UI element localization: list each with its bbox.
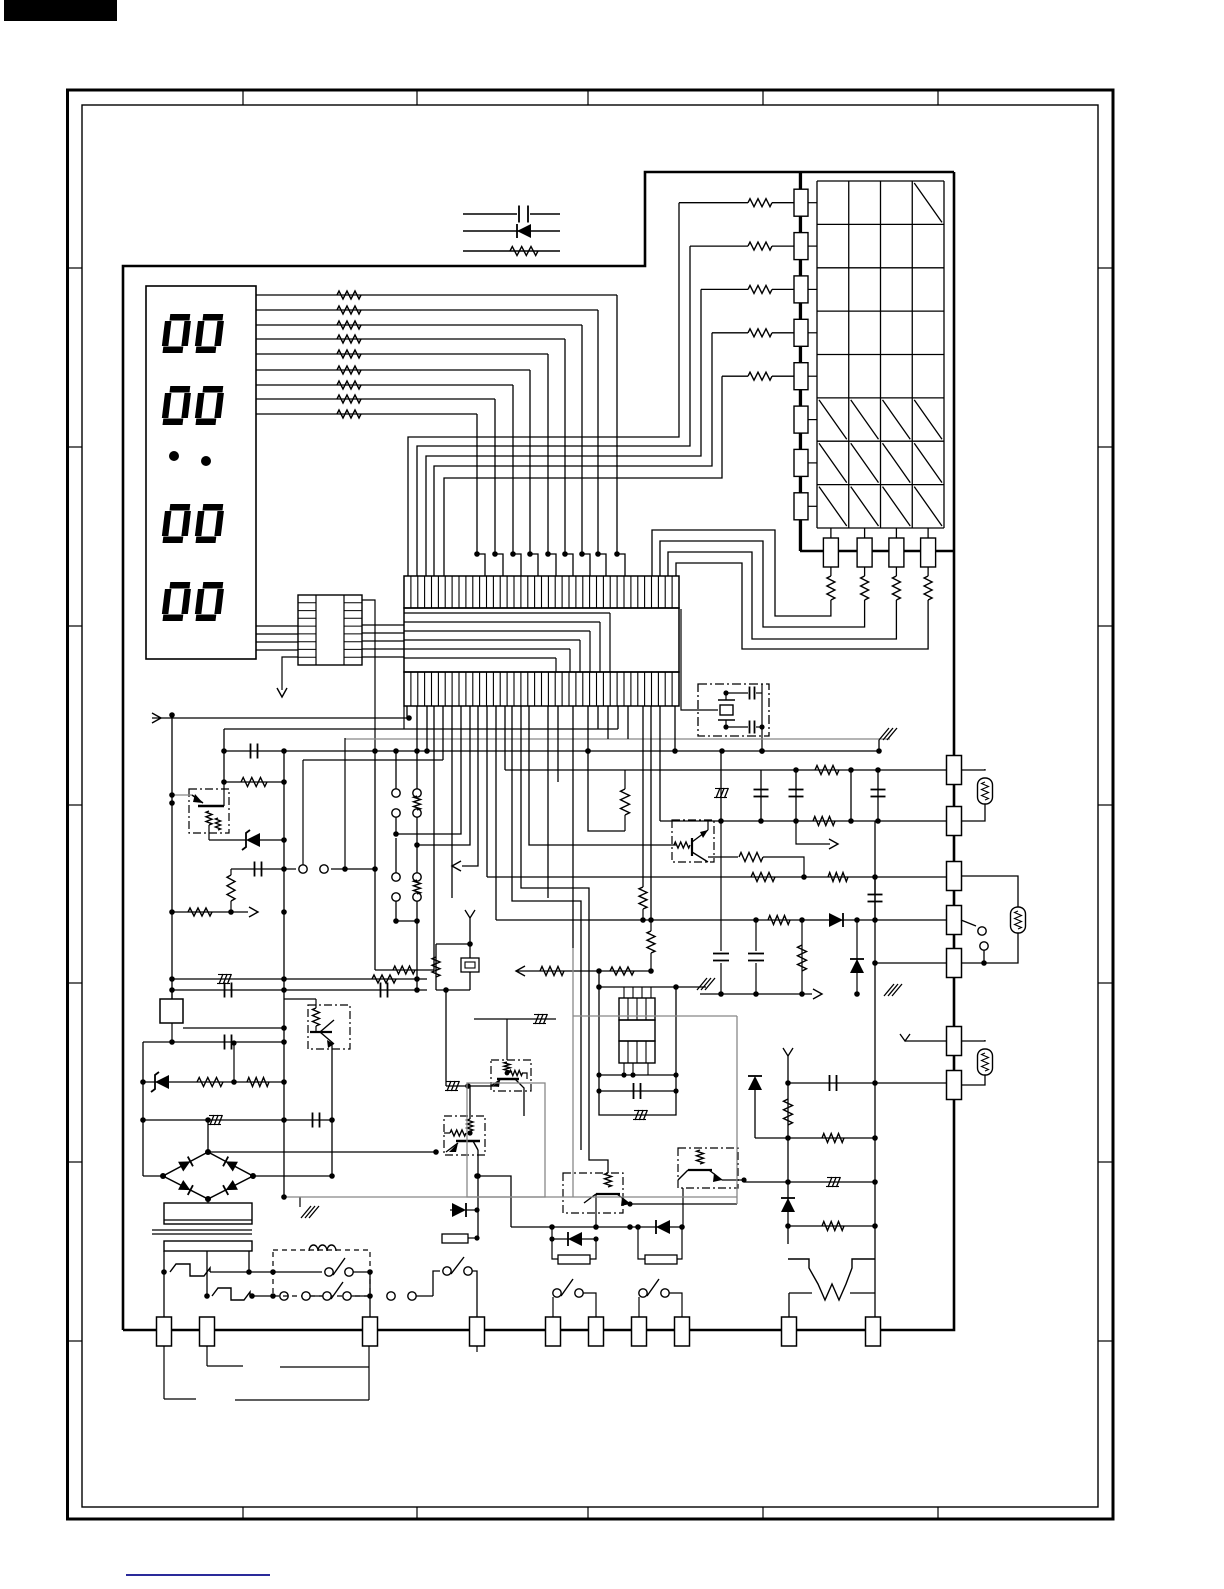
bus y994	[700, 993, 812, 995]
display digit pair 4	[163, 585, 190, 618]
keypad row resistor 4	[712, 332, 748, 334]
crystal X1	[720, 705, 733, 715]
res vertical x231	[227, 875, 235, 901]
zener up x788	[781, 1198, 795, 1212]
below-line wires	[163, 1346, 165, 1399]
module B resistor box	[638, 1227, 645, 1259]
7-segment display module	[146, 286, 256, 659]
display digit pair 2	[163, 389, 190, 422]
wire segment line 3	[256, 324, 582, 326]
circuit board boundary	[123, 172, 954, 1330]
module A resistor box	[552, 1239, 558, 1259]
rail x284	[283, 751, 285, 1197]
border tick marks	[242, 90, 244, 105]
breaker switch row2	[204, 1293, 210, 1299]
transistor Q2	[308, 1005, 350, 1049]
module A switch	[552, 1296, 554, 1317]
connector CN-553	[546, 1317, 561, 1346]
res x802 down	[801, 920, 803, 994]
transistor Q3	[563, 1173, 623, 1213]
keypad column resistor 3	[895, 567, 897, 576]
main supply bus	[224, 750, 879, 752]
keypad column wire 3	[668, 552, 896, 639]
wires latch to IC	[362, 624, 404, 626]
right edge connector boxes	[947, 756, 962, 785]
wires display to latch	[256, 625, 298, 627]
row y877	[487, 876, 954, 878]
interlock switch1	[273, 1271, 322, 1273]
res on HV left	[784, 1099, 793, 1125]
resonator loop	[436, 943, 470, 945]
keypad connector K5	[794, 363, 808, 390]
IC bottom pin row	[404, 672, 679, 706]
IC internal bus lines	[404, 612, 610, 614]
diode x857	[856, 920, 858, 994]
connector CN-164	[157, 1317, 172, 1346]
Y antenna	[465, 910, 475, 918]
bus wire A	[224, 728, 618, 730]
buzzer cap	[599, 1090, 676, 1092]
junction	[510, 551, 516, 557]
left rail	[171, 715, 173, 999]
junction	[562, 551, 568, 557]
heater box	[789, 1292, 812, 1294]
crystal oscillator box	[698, 684, 769, 736]
keypad row wire 4	[434, 333, 712, 576]
hatch feed wire y1019	[474, 1018, 556, 1020]
row y821	[660, 820, 946, 822]
keypad row resistor 2	[690, 245, 748, 247]
row y979 hatch	[172, 978, 427, 980]
crystal wires	[681, 609, 718, 710]
legend capacitor	[463, 213, 517, 215]
dashed interlock box	[273, 1250, 370, 1296]
legend diode	[463, 230, 560, 232]
IC bottom wires	[406, 706, 408, 718]
switch chain right	[387, 1292, 395, 1300]
main microcontroller IC body	[404, 608, 679, 672]
stub x224	[223, 729, 225, 782]
arrow wire y866	[452, 861, 461, 871]
interlock switch2	[302, 1292, 310, 1300]
connector CN-682	[675, 1317, 690, 1346]
keypad column wire 2	[660, 541, 865, 627]
relay coil	[160, 999, 183, 1023]
corner black label block	[4, 0, 117, 21]
row y771	[505, 769, 946, 771]
keypad column resistor 1	[830, 567, 832, 576]
caps down from y920	[720, 821, 722, 994]
module A diode	[551, 1227, 553, 1239]
hatch + cap y1120	[143, 1119, 332, 1121]
keypad connector K4	[794, 319, 808, 346]
lamp L1	[961, 769, 985, 770]
bridge rectifier	[163, 1152, 253, 1199]
keypad connector K8	[794, 493, 808, 520]
keypad connector K1	[794, 189, 808, 216]
zener + resistors y1082	[143, 1081, 284, 1083]
loop x625	[588, 751, 625, 831]
wire segment line 6	[256, 369, 530, 371]
entry arrow left	[152, 713, 161, 723]
link cap-zener rows	[233, 1043, 235, 1082]
connector CN-596	[589, 1317, 604, 1346]
wire y963 to rail	[875, 962, 946, 964]
keypad column connector C3	[895, 528, 897, 538]
junction	[579, 551, 585, 557]
junction	[474, 551, 480, 557]
junction	[527, 551, 533, 557]
keypad column connector C2	[864, 528, 866, 538]
ground right	[856, 990, 858, 994]
Y into CN1041	[900, 1034, 910, 1041]
keypad row wire 3	[426, 289, 701, 576]
ground below gray line	[299, 1197, 301, 1207]
buzzer ground	[676, 986, 706, 988]
wire segment line 5	[256, 353, 548, 355]
keypad column resistor 4	[927, 567, 929, 576]
row y912 with arrow	[172, 911, 231, 913]
connector CN-477	[470, 1317, 485, 1346]
keypad common chain line	[800, 172, 802, 551]
display colon dots	[169, 451, 179, 461]
transistor Q7	[672, 820, 714, 862]
buzzer resistor row	[516, 966, 525, 976]
display digit pair 3	[163, 507, 190, 540]
HV row y1138	[755, 1137, 875, 1139]
ground y993 right	[875, 996, 884, 998]
keypad row resistor 1	[679, 202, 748, 204]
keypad row wire 5	[444, 376, 722, 576]
IC top pin row	[404, 576, 679, 608]
wire segment line 7	[256, 384, 513, 386]
connector CN-370	[363, 1317, 378, 1346]
lamp L2	[961, 876, 1018, 907]
latch/driver IC	[298, 595, 362, 665]
legend resistor	[463, 250, 560, 252]
keypad connector K3	[794, 276, 808, 303]
row y990 caps	[172, 989, 427, 991]
keypad row resistor 3	[701, 288, 748, 290]
latch wire to bus	[362, 600, 375, 751]
connector CN-789	[782, 1317, 797, 1346]
display digit pair 1	[163, 317, 190, 350]
cap y1083	[788, 1082, 948, 1084]
row y920	[496, 919, 946, 921]
junction	[545, 551, 551, 557]
connector CN-207	[200, 1317, 215, 1346]
bus wire B (gray)	[345, 738, 890, 740]
zener D1	[209, 839, 246, 841]
drawing border outer	[68, 90, 1114, 1519]
IC edge stub	[403, 706, 405, 729]
drawing border inner	[82, 105, 1098, 1507]
caps between 770/821	[760, 770, 762, 821]
vertical x345	[344, 738, 346, 869]
cap y1042	[143, 1041, 284, 1043]
Q7 emitter resistor	[708, 857, 740, 862]
connector CN-639	[632, 1317, 647, 1346]
crystal caps	[726, 692, 748, 694]
cap x875	[868, 894, 883, 896]
lamp L3	[961, 1040, 985, 1041]
inductor coil	[309, 1245, 336, 1251]
buzzer loop	[599, 971, 676, 1115]
key matrix grid	[816, 181, 818, 528]
hatch x721	[720, 751, 722, 821]
relay contact box (gray)	[467, 1083, 545, 1197]
Y top	[783, 1048, 793, 1056]
RC row y782	[224, 781, 284, 783]
connector CN-873	[866, 1317, 881, 1346]
keypad connector K2	[794, 233, 808, 260]
blue footer underline	[126, 1574, 270, 1576]
junction	[492, 551, 498, 557]
wire segment line 1	[256, 294, 617, 296]
wire segment line 8	[256, 398, 495, 400]
switch at L2	[961, 920, 976, 926]
keypad connector K6	[794, 406, 808, 433]
HV row y1226	[788, 1225, 875, 1227]
buzzer component	[619, 998, 655, 1020]
buzzer hatch	[635, 1110, 639, 1120]
left relay contact group	[477, 1176, 479, 1238]
keypad column connector C1	[830, 528, 832, 538]
vertical resistor x651	[647, 931, 655, 953]
main line y1227	[511, 1226, 682, 1228]
keypad row wire 1	[408, 203, 679, 576]
magnetron heater	[788, 1259, 875, 1300]
switch column x396	[395, 751, 397, 789]
keypad row resistor 5	[722, 375, 748, 377]
wire segment line 4	[256, 338, 565, 340]
ground y731	[878, 740, 880, 751]
cap C-left1	[222, 728, 224, 782]
keypad column wire 4	[676, 563, 928, 649]
keypad column resistor 2	[864, 567, 866, 576]
breaker switch row1	[161, 1269, 167, 1275]
right rail x875	[874, 821, 876, 1293]
keypad column connector C4	[927, 528, 929, 538]
secondary taps	[206, 1251, 208, 1296]
transistor Q5	[444, 1116, 485, 1155]
HV rail left	[787, 1066, 789, 1244]
wire segment line 9	[256, 413, 477, 415]
keypad outer thick box	[799, 172, 801, 551]
bridge top wire to right	[208, 1151, 436, 1153]
keypad row wire 2	[417, 246, 690, 576]
HV row y1182	[744, 1181, 875, 1183]
transistor Q6	[491, 1060, 531, 1091]
diode up x755	[754, 1090, 756, 1138]
transformer	[142, 1176, 144, 1203]
transistor Q1 (reset)	[189, 789, 229, 833]
vertical resistor x643	[639, 887, 647, 909]
down arrow under latch	[282, 657, 298, 690]
wire y1086 with hatch	[446, 1085, 497, 1087]
key diagonals	[914, 183, 942, 222]
module B diode on line	[656, 1220, 670, 1234]
keypad connector K7	[794, 449, 808, 476]
cap row y869 + switch	[231, 868, 296, 870]
keypad column wire 1	[652, 530, 831, 616]
row y760	[303, 759, 443, 761]
transistor Q4	[678, 1148, 738, 1188]
switch column x417 resistor	[416, 751, 418, 789]
arrow y844	[796, 821, 830, 844]
wire segment line 2	[256, 309, 598, 311]
module B switch	[638, 1297, 640, 1317]
junction	[595, 551, 601, 557]
junction	[614, 551, 620, 557]
